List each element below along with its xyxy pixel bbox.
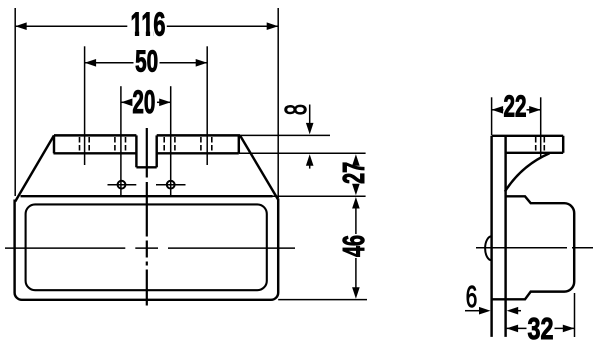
mounting plate left edge: [490, 136, 492, 337]
flange bottom edge: [54, 152, 239, 154]
flange right edge: [238, 135, 240, 153]
body outer outline: [15, 199, 279, 300]
dimension 27: [352, 154, 360, 195]
hidden slot lines (dashed): [80, 137, 212, 152]
grommet bump: [485, 236, 491, 260]
bracket bottom edge: [506, 152, 564, 154]
horizontal center line: [5, 247, 295, 249]
bracket slot hidden lines: [536, 137, 545, 152]
dimension line 32: [507, 325, 575, 333]
svg-text:20: 20: [132, 84, 155, 120]
svg-text:22: 22: [504, 89, 527, 124]
dimension line 116: [15, 22, 278, 30]
svg-text:46: 46: [336, 235, 371, 257]
right gusset diagonal: [240, 135, 278, 199]
extension line 50 left: [84, 46, 86, 165]
dimension line 50: [85, 59, 208, 67]
extension line 20 right: [170, 86, 172, 195]
extension line 116 left: [14, 8, 16, 196]
dimension line 22: [492, 106, 541, 114]
vertical center line: [146, 128, 148, 306]
svg-text:116: 116: [131, 5, 166, 42]
mounting plate right edge: [504, 136, 506, 337]
flange top edge: [54, 134, 240, 136]
dimension 6: [465, 307, 521, 315]
flange left edge: [53, 135, 55, 153]
extension line 22 left: [491, 97, 493, 135]
svg-text:50: 50: [135, 44, 158, 79]
flange bottom extension right: [239, 152, 366, 154]
bracket top edge: [492, 135, 564, 137]
bracket right edge: [562, 136, 564, 153]
side center line: [476, 247, 593, 249]
body outer top edge: [21, 195, 273, 197]
extension line 20 left: [120, 86, 122, 195]
extension line 116 right: [277, 8, 279, 198]
extension line 50 right: [206, 46, 208, 165]
lamp body profile: [492, 196, 575, 299]
serif patches for digit 1: [131, 30, 153, 36]
screw hole right: [167, 181, 175, 189]
gusset curve: [505, 153, 550, 191]
dimension 46: [352, 197, 360, 299]
screw hole left: [118, 181, 126, 189]
extension line 32 right: [574, 293, 576, 337]
svg-text:8: 8: [278, 104, 313, 115]
center tab: [136, 135, 156, 167]
screw cross left: [108, 184, 137, 186]
screw cross right: [156, 184, 186, 186]
svg-text:27: 27: [336, 162, 371, 184]
svg-text:6: 6: [466, 279, 478, 314]
flange top extension right: [240, 134, 330, 136]
dimension line 20: [121, 99, 171, 107]
body top extension right: [273, 195, 366, 197]
dimension 8 arrows: [306, 105, 314, 169]
body bottom extension right: [278, 299, 367, 301]
left gusset diagonal: [15, 135, 54, 201]
lens inner outline: [26, 204, 267, 290]
extension line 22 right: [540, 97, 542, 157]
svg-text:32: 32: [528, 311, 554, 346]
